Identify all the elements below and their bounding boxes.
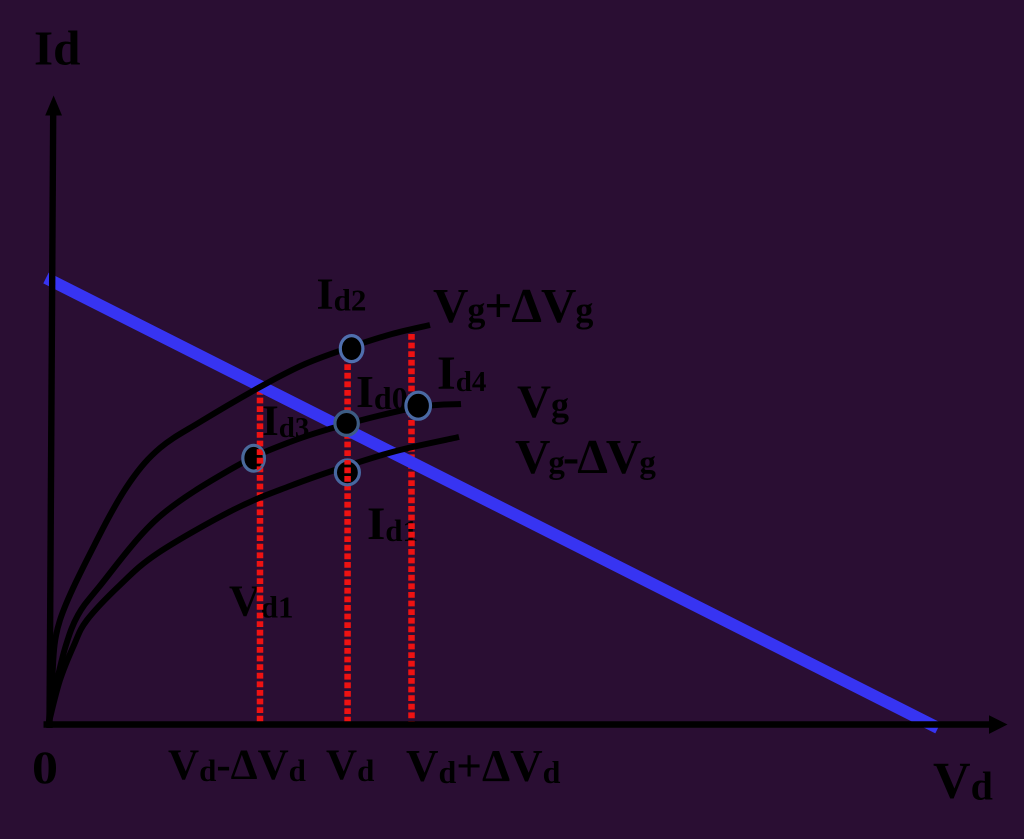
x-axis arrowhead: [989, 715, 1008, 734]
point Id3 (open circle on Vg curve at Vd-dVd): [243, 445, 265, 471]
curve Vg-dVg (bottom): [49, 437, 459, 722]
point Id4 (open circle on Vg curve at Vd+dVd): [406, 392, 431, 419]
y-axis arrowhead: [45, 96, 62, 116]
point Id1 (open circle on Vg-dVg curve at Vd): [335, 460, 359, 485]
svg-text:Vd-ΔVd: Vd-ΔVd: [168, 742, 306, 789]
curve Vg+dVg (top): [49, 325, 430, 722]
red dotted line at Vd (middle): [344, 347, 351, 723]
y-axis: [50, 112, 54, 728]
svg-text:Vg+ΔVg: Vg+ΔVg: [433, 278, 593, 333]
point Id0 (filled circle at Vd on Vg curve, load line intersection): [335, 411, 358, 435]
x-axis: [44, 721, 990, 728]
svg-text:Id: Id: [34, 21, 80, 76]
point Id2 (open circle on Vg+dVg curve at Vd): [340, 336, 363, 362]
red dotted line at Vd+dVd (right): [408, 334, 415, 723]
curve Vg (middle): [49, 404, 461, 722]
svg-text:Vd+ΔVd: Vd+ΔVd: [406, 741, 561, 791]
red dotted line at Vd-dVd (left): [257, 389, 264, 723]
blue load line: [46, 278, 938, 728]
svg-text:0: 0: [32, 742, 58, 794]
svg-text:Vg-ΔVg: Vg-ΔVg: [515, 429, 656, 484]
